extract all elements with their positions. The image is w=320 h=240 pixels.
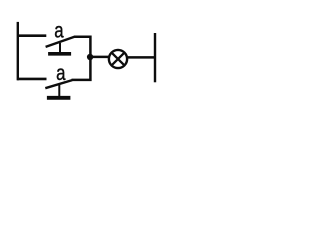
wire junction to lamp bbox=[90, 56, 109, 59]
contact a2 fixed contact bar bbox=[47, 96, 71, 100]
left terminal bar bbox=[17, 22, 19, 80]
label a (bottom contact) bbox=[56, 63, 66, 86]
lamp circle bbox=[109, 50, 127, 68]
svg-text:a: a bbox=[54, 20, 64, 43]
lamp cross bbox=[112, 53, 124, 65]
wire lamp to right terminal bbox=[128, 56, 155, 59]
wire top branch outgoing to corner bbox=[74, 37, 90, 57]
contact a1 fixed contact bar bbox=[48, 52, 71, 56]
wire top branch from left terminal bbox=[17, 34, 46, 37]
contact a1 fixed contact stem bbox=[59, 43, 61, 53]
wire bottom branch outgoing to corner bbox=[72, 58, 91, 80]
contact a2 movable blade bbox=[45, 80, 72, 88]
right terminal bar bbox=[154, 33, 156, 82]
node junction dot bbox=[87, 54, 93, 60]
contact a1 movable blade bbox=[46, 37, 75, 47]
wire bottom branch from left terminal bbox=[17, 78, 47, 81]
svg-text:a: a bbox=[56, 63, 66, 86]
label a (top contact) bbox=[54, 20, 64, 43]
contact a2 fixed contact stem bbox=[58, 85, 60, 97]
